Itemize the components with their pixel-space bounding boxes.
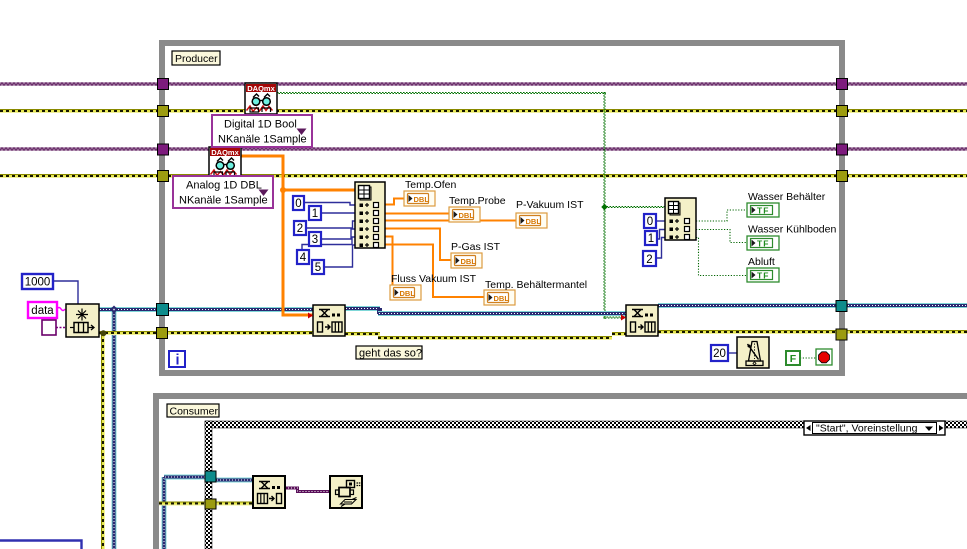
numeric constant 1000 <box>22 274 53 289</box>
svg-text:data: data <box>31 305 54 317</box>
tunnel: queue left <box>157 304 169 316</box>
wire: queue junction diamond <box>110 306 118 314</box>
svg-text:Abluft: Abluft <box>748 256 775 268</box>
svg-text:DBL: DBL <box>494 294 510 303</box>
obtain queue node <box>66 304 99 337</box>
dequeue element node <box>253 476 285 508</box>
svg-text:Fluss Vakuum IST: Fluss Vakuum IST <box>391 273 477 285</box>
wire: error inside consumer loop <box>159 502 253 506</box>
wire: orange index array outputs <box>385 199 516 298</box>
svg-text:Temp.Ofen: Temp.Ofen <box>405 179 457 191</box>
tunnel: queue right <box>836 301 847 312</box>
svg-text:TF: TF <box>757 271 769 281</box>
svg-text:Consumer: Consumer <box>170 406 219 418</box>
tunnel: error wire left <box>158 106 169 117</box>
tunnel: error into case structure <box>205 499 216 509</box>
wire: DAQmx task wire 2 (horizontal, full width) <box>0 147 967 151</box>
wire: error wire 2 (horizontal, full width) <box>0 174 967 178</box>
svg-text:DBL: DBL <box>414 195 430 204</box>
svg-text:P-Gas IST: P-Gas IST <box>451 241 501 253</box>
boolean constant F <box>786 351 800 365</box>
svg-text:DBL: DBL <box>459 211 475 220</box>
tunnel: task wire 2 left <box>158 144 169 155</box>
svg-text:TF: TF <box>757 206 769 216</box>
svg-text:Producer: Producer <box>175 53 218 65</box>
consumer while loop border <box>153 393 967 549</box>
numeric constant 20 <box>711 345 728 361</box>
svg-text:Digital 1D Bool: Digital 1D Bool <box>224 119 297 131</box>
svg-text:Temp.Probe: Temp.Probe <box>449 195 506 207</box>
svg-text:NKanäle 1Sample: NKanäle 1Sample <box>218 134 307 146</box>
svg-text:DBL: DBL <box>400 289 416 298</box>
wire: queue refnum junction <box>112 308 117 313</box>
svg-text:geht das so?: geht das so? <box>359 348 422 360</box>
tunnel: error bottom left <box>157 328 168 339</box>
svg-text:2: 2 <box>297 223 303 235</box>
tunnel: task wire 2 right <box>837 144 848 155</box>
wire: queue refnum enqueue1 to enqueue2 <box>345 306 380 311</box>
TF indicator Abluft <box>747 268 779 282</box>
svg-text:1000: 1000 <box>25 277 51 289</box>
DAQmx Read digital (U1) <box>245 83 277 114</box>
svg-text:3: 3 <box>312 234 318 246</box>
svg-text:DAQmx: DAQmx <box>211 148 239 157</box>
polymorphic selector: Analog 1D DBL <box>173 176 273 208</box>
wire: queue name wire <box>56 327 66 329</box>
DBL indicator P-Vakuum IST <box>516 213 547 228</box>
TF indicator Wasser Kühlboden <box>747 236 779 250</box>
free labels <box>391 179 836 291</box>
string constant data <box>28 302 57 318</box>
svg-text:5: 5 <box>315 262 321 274</box>
tunnel: error wire right <box>837 106 848 117</box>
index constants 0-5 <box>293 196 324 274</box>
consumer task node <box>330 476 363 508</box>
svg-text:1: 1 <box>312 208 318 220</box>
DBL indicator Temp.Probe <box>449 207 480 222</box>
wire: DAQmx task wire 1 (horizontal, full width) <box>0 82 967 86</box>
enqueue element node 1 <box>308 305 345 336</box>
iteration terminal i <box>169 351 185 369</box>
case selector label <box>804 421 945 435</box>
index array 1 <box>355 182 385 248</box>
index array 2 <box>665 198 696 240</box>
polymorphic selector: Digital 1D Bool <box>212 115 312 147</box>
wire: error enqueue1 to enqueue2 <box>345 332 380 336</box>
tunnel: error wire 2 left <box>158 171 169 182</box>
tunnel: queue into case structure <box>205 471 216 482</box>
svg-text:2: 2 <box>646 254 652 266</box>
label: geht das so? <box>356 346 422 360</box>
svg-text:Wasser Kühlboden: Wasser Kühlboden <box>748 224 836 236</box>
wire: queue refnum inside consumer loop <box>162 477 167 549</box>
wire: error junction dot <box>100 330 106 336</box>
svg-text:"Start", Voreinstellung: "Start", Voreinstellung <box>816 423 918 435</box>
tunnel: task wire left <box>158 79 169 90</box>
wire: blue scalar wires <box>53 203 737 354</box>
tunnel: task wire right <box>837 79 848 90</box>
wire: analog data orange wire <box>241 155 355 317</box>
enqueue element node 2 <box>621 305 658 336</box>
wire: error wire 1 (horizontal, full width) <box>0 109 967 113</box>
svg-text:i: i <box>175 353 179 369</box>
wire: orange junction dot <box>280 187 286 193</box>
svg-text:F: F <box>790 353 797 365</box>
index constants 0-2 (boolean) <box>643 214 657 266</box>
DBL indicator Temp.Ofen <box>404 191 435 206</box>
svg-text:TF: TF <box>757 239 769 249</box>
svg-text:Temp. Behältermantel: Temp. Behältermantel <box>485 279 587 291</box>
svg-text:0: 0 <box>647 216 653 228</box>
wire: error from obtain queue to enqueue 1 <box>99 331 313 335</box>
loop condition terminal (stop sign) <box>816 349 832 365</box>
svg-text:DBL: DBL <box>526 217 542 226</box>
case structure border (hatched) <box>205 421 967 549</box>
tunnels on producer loop borders <box>157 79 848 510</box>
wire: error down to consumer <box>101 333 105 549</box>
wire: pink string wire <box>57 308 65 311</box>
wire: boolean outputs to TF indicators <box>696 210 816 358</box>
blue panel corner bottom-left <box>0 541 82 549</box>
TF indicator Wasser Behälter <box>747 203 779 217</box>
DBL indicator Fluss Vakuum IST <box>390 285 421 300</box>
producer while loop border <box>159 40 845 376</box>
svg-text:Wasser Behälter: Wasser Behälter <box>748 191 826 203</box>
DBL indicator Temp. Behältermantel <box>484 290 515 305</box>
tunnel: error bottom right <box>836 329 847 340</box>
DBL indicator P-Gas IST <box>451 253 482 268</box>
DAQmx Read analog (U2) <box>209 147 241 178</box>
wait ms metronome node <box>737 337 769 368</box>
wire: error junction dot <box>101 330 106 335</box>
label: Producer <box>172 51 220 65</box>
queue name constant (empty) <box>42 320 56 335</box>
wire: error enqueue2 to right edge <box>658 330 967 334</box>
svg-text:P-Vakuum IST: P-Vakuum IST <box>516 199 584 211</box>
svg-text:NKanäle 1Sample: NKanäle 1Sample <box>179 195 268 207</box>
svg-text:20: 20 <box>713 348 726 360</box>
wire: dequeued element (task) wire <box>285 488 330 492</box>
svg-text:0: 0 <box>295 198 301 210</box>
label: Consumer <box>167 404 219 418</box>
svg-text:Analog 1D DBL: Analog 1D DBL <box>186 180 262 192</box>
wire: queue refnum enqueue2 to right edge <box>658 303 967 308</box>
svg-text:4: 4 <box>300 252 307 264</box>
svg-text:1: 1 <box>648 233 654 245</box>
svg-text:DBL: DBL <box>461 257 477 266</box>
wire: queue refnum down to consumer <box>112 310 117 549</box>
tunnel: error wire 2 right <box>837 171 848 182</box>
svg-text:DAQmx: DAQmx <box>247 84 275 93</box>
wire: boolean array wire from digital read <box>277 92 666 319</box>
wire: queue refnum from obtain queue to enqueue 1 <box>99 307 313 312</box>
